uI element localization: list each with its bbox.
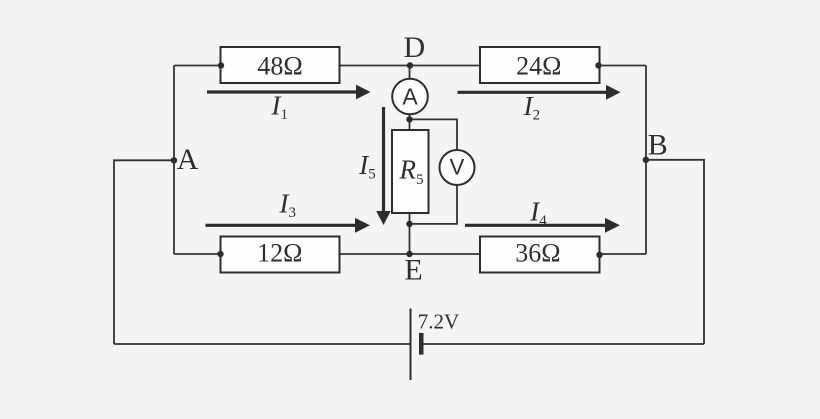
svg-text:7.2V: 7.2V <box>418 310 459 334</box>
svg-text:B: B <box>648 129 668 162</box>
svg-text:36Ω: 36Ω <box>515 239 560 268</box>
svg-text:V: V <box>450 154 465 179</box>
svg-text:E: E <box>404 254 422 287</box>
svg-text:A: A <box>402 83 418 109</box>
svg-text:A: A <box>177 143 199 176</box>
svg-text:D: D <box>403 31 425 64</box>
svg-text:24Ω: 24Ω <box>516 52 561 81</box>
svg-text:12Ω: 12Ω <box>257 239 302 268</box>
svg-text:48Ω: 48Ω <box>257 52 302 81</box>
